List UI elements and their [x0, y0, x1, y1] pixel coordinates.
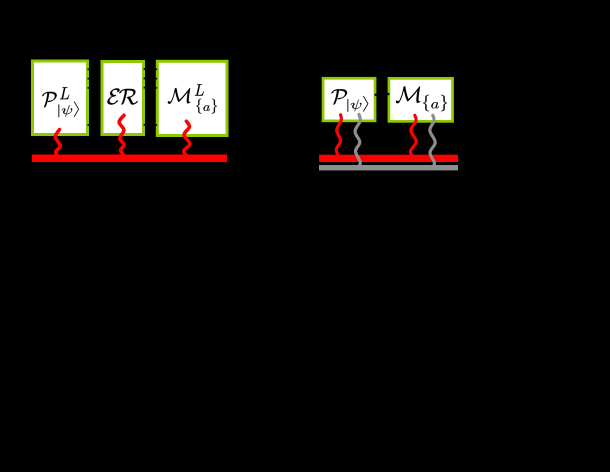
left red bar (logical qubit line) — [32, 155, 227, 163]
red squiggle from box P — [336, 115, 341, 157]
black wire crossing box4 right border — [375, 94, 378, 96]
black wires crossing box2 right border — [144, 68, 147, 70]
label P^L_psi — [42, 92, 57, 107]
label P_psi — [331, 89, 347, 104]
black wires crossing box3 left border — [155, 69, 157, 71]
label M_{a} — [396, 86, 420, 103]
box ER (error correction/recovery) — [102, 62, 144, 135]
gray bar (noisy/physical qubit line) — [319, 165, 458, 170]
box P^L_psi (logical state preparation) — [33, 61, 88, 135]
red squiggle from box M — [410, 115, 416, 157]
label ER — [107, 88, 137, 104]
red squiggle from box M^L — [184, 121, 190, 157]
red squiggle from box P^L — [55, 130, 60, 158]
red squiggle from box ER — [119, 115, 124, 156]
box M^L_{a} (logical measurement) — [157, 61, 227, 135]
right red bar (ideal qubit line) — [319, 155, 458, 162]
black wire crossing box5 left border — [387, 93, 390, 95]
gray squiggle from box M — [430, 115, 435, 168]
gray squiggle from box P — [355, 114, 360, 168]
box M_{a} (physical measurement) — [389, 78, 453, 121]
label M^L_{a} — [168, 88, 191, 104]
black wires crossing box1 right border — [88, 68, 91, 70]
box P_psi (ideal state preparation) — [323, 78, 375, 121]
